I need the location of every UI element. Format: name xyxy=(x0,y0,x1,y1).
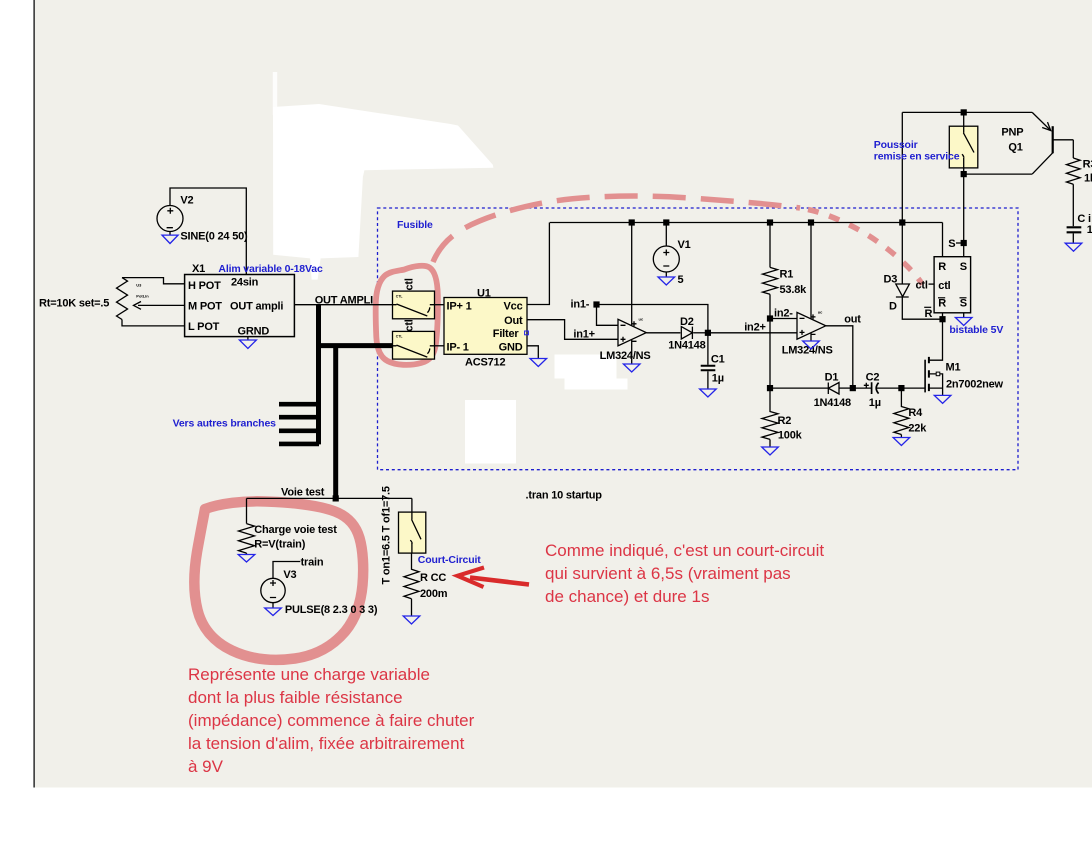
switch Poussoir xyxy=(949,126,978,168)
pink blob around charge circuit xyxy=(194,501,363,659)
wire R1 top xyxy=(769,223,771,268)
resistor R4 xyxy=(894,391,909,435)
node S xyxy=(961,240,967,246)
node rail V1 xyxy=(663,219,669,225)
wire C2 to gate xyxy=(876,387,925,389)
wire node to Poussoir xyxy=(963,112,965,126)
switch ctl upper (fusible) xyxy=(393,291,435,319)
wire V2 to X1 xyxy=(170,188,246,275)
wire R3 to capacitor xyxy=(1072,184,1074,226)
thick wire branch to IP- switch xyxy=(316,343,393,348)
resistor R1 xyxy=(763,267,778,294)
svg-text:Poussoir: Poussoir xyxy=(874,139,918,151)
ground under U1 GND xyxy=(530,359,547,367)
Filter pin marker xyxy=(525,331,529,335)
svg-text:qui survient à 6,5s (vraiment: qui survient à 6,5s (vraiment pas xyxy=(545,564,791,583)
svg-text:PotLin: PotLin xyxy=(136,294,149,299)
svg-text:S: S xyxy=(960,298,967,310)
switch ctl lower (fusible) xyxy=(393,331,435,359)
ground under R CC xyxy=(411,599,413,616)
wire in1- to opamp minus input xyxy=(597,305,619,326)
wire D1 to out node xyxy=(839,387,853,389)
svg-text:ctl: ctl xyxy=(404,319,416,331)
svg-text:OUT ampli: OUT ampli xyxy=(230,301,283,313)
svg-text:PNP: PNP xyxy=(1001,127,1023,139)
svg-text:Alim variable 0-18Vac: Alim variable 0-18Vac xyxy=(218,263,323,275)
svg-text:D2: D2 xyxy=(680,316,694,328)
diode D2 xyxy=(681,327,692,339)
svg-text:S: S xyxy=(960,261,967,273)
ground under V2 xyxy=(169,232,171,236)
wire R1 bottom to in2- node xyxy=(769,294,771,318)
svg-text:OUT AMPLI: OUT AMPLI xyxy=(315,295,373,307)
svg-text:uc: uc xyxy=(639,317,644,322)
node R2 xyxy=(767,385,773,391)
svg-text:R=V(train): R=V(train) xyxy=(254,539,305,551)
svg-text:GND: GND xyxy=(499,341,523,353)
svg-text:bistable 5V: bistable 5V xyxy=(949,324,1003,336)
svg-text:V1: V1 xyxy=(678,239,691,251)
svg-text:Rt=10K set=.5: Rt=10K set=.5 xyxy=(39,298,109,310)
wire C1 bottom xyxy=(707,371,709,389)
pink dashed arc annotation xyxy=(433,196,800,262)
resistor R2 xyxy=(762,388,778,439)
ground under C1 xyxy=(700,389,717,397)
svg-text:2n7002new: 2n7002new xyxy=(946,379,1004,391)
wire node to PNP collector xyxy=(964,173,1032,175)
white-out patch below ACS712 xyxy=(465,400,516,464)
svg-text:C1: C1 xyxy=(711,354,725,366)
svg-text:Représente une charge variable: Représente une charge variable xyxy=(188,665,430,684)
latch A1 bistable box xyxy=(934,257,971,313)
wire R2 node to D1 xyxy=(770,387,828,389)
ground under C xyxy=(1065,243,1082,251)
node rail D3 xyxy=(899,219,905,225)
svg-text:in2+: in2+ xyxy=(744,322,766,334)
svg-text:ctl: ctl xyxy=(938,280,950,292)
ground under X1 GRND xyxy=(247,337,249,340)
node Voie test xyxy=(333,495,339,501)
node below Poussoir xyxy=(961,171,967,177)
resistor Charge voie test xyxy=(239,524,255,554)
subcircuit X1 box xyxy=(185,275,295,337)
node Rbar xyxy=(939,316,945,322)
svg-text:.tran 10 startup: .tran 10 startup xyxy=(526,490,603,502)
pot wiper arrow xyxy=(138,304,185,306)
ground under bistable Sbar xyxy=(963,313,965,318)
svg-text:Fusible: Fusible xyxy=(397,219,433,231)
wire top horizontal to PNP emitter xyxy=(902,111,1032,113)
wire Voie test to CC switch xyxy=(411,498,413,512)
voltage source V3 xyxy=(261,578,285,602)
svg-text:22k: 22k xyxy=(908,423,927,435)
capacitor C1 xyxy=(701,366,716,371)
wire D3 cathode to Rbar node xyxy=(902,297,942,319)
svg-text:PULSE(8 2.3 0 3 3): PULSE(8 2.3 0 3 3) xyxy=(285,604,378,616)
top supply rail xyxy=(550,222,943,224)
svg-text:IP- 1: IP- 1 xyxy=(447,341,469,353)
svg-text:200m: 200m xyxy=(420,588,448,600)
mosfet M1 2n7002 xyxy=(924,360,926,393)
svg-text:R: R xyxy=(938,298,946,310)
wire Voie test horizontal xyxy=(247,497,412,499)
ground under R2 xyxy=(769,439,771,447)
Fusible dashed box xyxy=(378,208,1019,470)
wire in2+ xyxy=(708,332,797,334)
svg-text:R2: R2 xyxy=(778,415,792,427)
wire op1 power xyxy=(631,223,633,326)
op-amp U2b LM324 xyxy=(797,312,826,339)
wire V1 riser xyxy=(665,223,667,247)
svg-text:de chance) et dure 1s: de chance) et dure 1s xyxy=(545,587,709,606)
svg-text:uc: uc xyxy=(818,310,823,315)
transistor Q1 PNP xyxy=(1052,126,1054,153)
wire Poussoir branch top xyxy=(901,112,903,222)
svg-text:Out: Out xyxy=(504,315,523,327)
svg-text:train: train xyxy=(301,557,324,569)
wire bistable Rbar pin xyxy=(942,313,944,319)
ground under V1 xyxy=(665,272,667,277)
voltage source V2 xyxy=(157,206,183,232)
node out/C2 xyxy=(850,385,856,391)
svg-text:CTL: CTL xyxy=(396,294,403,298)
svg-text:in1-: in1- xyxy=(571,299,590,311)
svg-text:la tension d'alim, fixée arbit: la tension d'alim, fixée arbitrairement xyxy=(188,734,465,753)
wire D2 to node xyxy=(693,332,708,334)
svg-text:ACS712: ACS712 xyxy=(465,357,505,369)
svg-text:1µ: 1µ xyxy=(712,373,724,385)
svg-text:SINE(0 24 50): SINE(0 24 50) xyxy=(180,231,248,243)
svg-text:T on1=6.5 T of1=7.5: T on1=6.5 T of1=7.5 xyxy=(381,486,393,584)
svg-text:H POT: H POT xyxy=(188,280,221,292)
svg-text:M POT: M POT xyxy=(188,301,222,313)
wire op1 out to D2 xyxy=(646,332,680,334)
svg-text:53.8k: 53.8k xyxy=(780,284,808,296)
switch Court-Circuit xyxy=(399,512,426,553)
svg-text:out: out xyxy=(844,314,861,326)
node rail R1 xyxy=(767,219,773,225)
wire out xyxy=(826,326,853,388)
node in1- xyxy=(593,301,599,307)
white-out patch top center xyxy=(273,72,277,115)
comb tooth 3 xyxy=(279,428,319,433)
page border line xyxy=(33,0,35,788)
svg-text:Vcc: Vcc xyxy=(504,300,523,312)
svg-text:dont la plus faible résistance: dont la plus faible résistance xyxy=(188,688,403,707)
red arrow to R CC xyxy=(470,578,529,585)
wire rail corner to bistable R pin xyxy=(942,223,944,257)
svg-text:R: R xyxy=(925,308,933,320)
svg-text:Filter: Filter xyxy=(493,328,520,340)
wire U1 Out to in1+ xyxy=(527,320,618,340)
wire base to R3 xyxy=(1072,140,1074,158)
svg-text:Comme indiqué, c'est un court-: Comme indiqué, c'est un court-circuit xyxy=(545,541,824,560)
wire V3 to train label xyxy=(273,562,300,579)
wire down to charge resistor xyxy=(246,498,248,523)
thick wire down to Voie test xyxy=(333,346,338,499)
svg-text:à 9V: à 9V xyxy=(188,757,224,776)
svg-text:1µ: 1µ xyxy=(869,397,881,409)
node in2- xyxy=(767,315,773,321)
IC U1 ACS712 box xyxy=(444,298,527,355)
wire Rbar node to M1 drain xyxy=(929,319,943,360)
svg-text:D1: D1 xyxy=(825,372,839,384)
svg-text:D3: D3 xyxy=(884,274,898,286)
capacitor C2 xyxy=(872,382,879,394)
svg-text:S: S xyxy=(948,238,955,250)
node rail op1 xyxy=(629,219,635,225)
svg-text:V3: V3 xyxy=(283,569,296,581)
wire out node to C2 xyxy=(853,387,872,389)
svg-text:100k: 100k xyxy=(778,430,803,442)
diode D1 xyxy=(828,383,839,395)
node gate/R4 xyxy=(898,385,904,391)
svg-text:remise en service: remise en service xyxy=(874,151,960,163)
svg-text:U1: U1 xyxy=(477,288,491,300)
svg-text:1: 1 xyxy=(1087,224,1092,236)
ground under R4 xyxy=(900,435,902,438)
node top xyxy=(961,109,967,115)
resistor R CC xyxy=(404,553,419,599)
comb tooth 4 xyxy=(279,442,319,447)
resistor R3 xyxy=(1067,158,1081,184)
ground under V3 xyxy=(272,603,274,608)
wire Poussoir down to bistable S xyxy=(963,168,965,257)
wire in1- feedback to D2 node xyxy=(597,305,708,333)
svg-text:5: 5 xyxy=(678,274,684,286)
svg-text:R: R xyxy=(938,261,946,273)
wire C1 top xyxy=(707,333,709,365)
thick wire down from OUT AMPLI xyxy=(316,305,321,445)
ground under op2 xyxy=(810,333,812,341)
comb tooth 1 xyxy=(279,402,319,407)
wire switch to IP- xyxy=(434,345,444,347)
svg-text:in1+: in1+ xyxy=(573,329,595,341)
comb tooth 2 xyxy=(279,415,319,420)
svg-text:1N4148: 1N4148 xyxy=(814,397,851,409)
svg-text:in2-: in2- xyxy=(774,308,793,320)
ground under M1 xyxy=(934,395,951,403)
svg-text:1N4148: 1N4148 xyxy=(668,340,705,352)
svg-text:Court-Circuit: Court-Circuit xyxy=(418,554,481,566)
svg-text:24sin: 24sin xyxy=(231,277,259,289)
wire C to ground xyxy=(1072,233,1074,243)
svg-text:R CC: R CC xyxy=(420,572,446,584)
node D2 out xyxy=(705,330,711,336)
svg-text:X1: X1 xyxy=(192,263,205,275)
svg-text:LM324/NS: LM324/NS xyxy=(782,345,833,357)
svg-text:L POT: L POT xyxy=(188,321,220,333)
svg-text:GRND: GRND xyxy=(238,326,270,338)
voltage source V1 xyxy=(653,246,679,272)
svg-text:U3: U3 xyxy=(136,283,142,288)
node rail op2 xyxy=(808,219,814,225)
svg-text:(impédance) commence à faire c: (impédance) commence à faire chuter xyxy=(188,711,475,730)
wire OUT ampli to fusible switch xyxy=(294,304,392,306)
svg-text:Vers autres branches: Vers autres branches xyxy=(173,418,277,430)
svg-text:IP+ 1: IP+ 1 xyxy=(447,300,472,312)
svg-text:CTL: CTL xyxy=(396,335,403,339)
pink loop around ctl switches xyxy=(376,266,438,365)
svg-text:R4: R4 xyxy=(908,407,923,419)
wire U1 GND xyxy=(527,346,538,359)
svg-text:Voie test: Voie test xyxy=(281,487,325,499)
svg-text:Charge voie test: Charge voie test xyxy=(254,524,337,536)
potentiometer Rt xyxy=(117,278,128,320)
svg-text:Q1: Q1 xyxy=(1008,142,1022,154)
wire in2- to opamp2 xyxy=(770,318,797,320)
svg-text:R3: R3 xyxy=(1083,159,1092,171)
svg-text:1k: 1k xyxy=(1084,173,1092,185)
wire H POT to pot top xyxy=(122,278,185,284)
op-amp U2a LM324 xyxy=(618,319,646,346)
svg-text:M1: M1 xyxy=(946,362,961,374)
svg-text:ctl: ctl xyxy=(916,280,928,292)
svg-text:ctl: ctl xyxy=(404,278,416,290)
wire switch to IP+ xyxy=(434,304,444,306)
wire in2- node down to R2 node xyxy=(769,319,771,389)
svg-text:D: D xyxy=(889,301,897,313)
svg-text:V2: V2 xyxy=(180,195,193,207)
wire U1 Vcc riser xyxy=(527,223,549,305)
svg-text:LM324/NS: LM324/NS xyxy=(600,350,651,362)
ground under op1 xyxy=(631,340,633,365)
wire L POT to pot bottom xyxy=(122,320,185,326)
diode D3 xyxy=(896,284,910,297)
wire D3 anode xyxy=(901,223,903,285)
white-out patch near LM324 label xyxy=(555,355,617,379)
svg-text:C2: C2 xyxy=(866,372,880,384)
svg-text:R1: R1 xyxy=(780,269,794,281)
ground under charge resistor xyxy=(246,553,248,554)
wire op2 power xyxy=(810,223,812,319)
capacitor C right xyxy=(1067,227,1082,232)
